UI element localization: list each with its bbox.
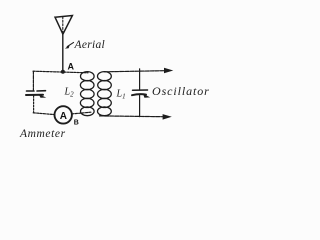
svg-text:B: B: [74, 120, 79, 127]
antenna (aerial) symbol: [55, 16, 72, 35]
svg-text:Ammeter: Ammeter: [19, 128, 66, 140]
wire: left loop bottom side (right of ammeter): [72, 112, 91, 114]
Aerial pointer arrow: [65, 42, 74, 48]
arrowhead top output: [164, 68, 173, 74]
capacitor C1 (aerial tuning): [26, 91, 46, 98]
wire: left loop top side: [33, 71, 88, 73]
inductor L2 (primary coil): [80, 72, 94, 116]
capacitor C2 (oscillator tuning): [132, 90, 150, 98]
wire: left loop left side upper: [32, 71, 34, 91]
wire: capacitor branch upper: [139, 69, 141, 90]
svg-text:A: A: [68, 62, 75, 72]
arrowhead bottom output: [163, 114, 172, 120]
wire: oscillator top lead: [104, 71, 164, 72]
wire: oscillator bottom lead: [100, 115, 164, 118]
wire: left loop left side lower: [33, 96, 35, 113]
svg-text:Oscillator: Oscillator: [152, 84, 210, 98]
svg-text:A: A: [60, 111, 67, 122]
ammeter A: [55, 106, 72, 123]
antenna down-lead wire: [62, 34, 64, 72]
wire: left loop bottom side (left of ammeter): [33, 113, 54, 115]
wire: capacitor branch lower: [139, 95, 141, 116]
node A junction dot: [61, 70, 65, 74]
svg-text:Aerial: Aerial: [74, 39, 106, 51]
inductor L1 (secondary coil): [98, 72, 112, 116]
antenna inner dashed lead: [62, 17, 64, 33]
